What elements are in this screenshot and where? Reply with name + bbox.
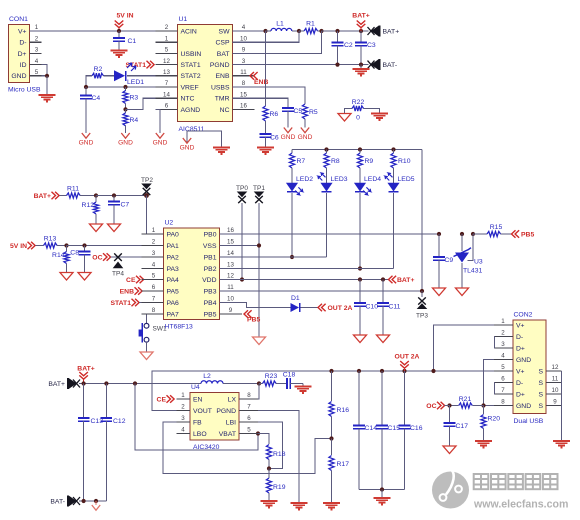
pin 14 U1: [156, 97, 178, 99]
svg-text:4: 4: [152, 262, 156, 269]
svg-text:10: 10: [240, 35, 247, 42]
junction C9 top: [437, 232, 441, 236]
svg-text:L2: L2: [203, 373, 211, 380]
capacitor C13: [83, 384, 85, 419]
capacitor C18 series: [286, 378, 288, 389]
svg-text:VOUT: VOUT: [193, 408, 212, 415]
svg-text:13: 13: [227, 262, 234, 269]
svg-text:8: 8: [242, 80, 246, 87]
ground C10 open: [354, 335, 367, 343]
svg-text:R4: R4: [130, 117, 139, 124]
wire U3 ref: [468, 234, 474, 261]
svg-text:2: 2: [152, 239, 156, 246]
capacitor C4: [85, 87, 87, 96]
svg-text:LED1: LED1: [127, 79, 144, 86]
svg-text:C17: C17: [456, 423, 469, 430]
wire LX to L2: [239, 384, 259, 400]
svg-text:R15: R15: [490, 224, 503, 231]
resistor R13: [36, 245, 44, 247]
junction R3 R4 NTC: [123, 107, 127, 111]
svg-text:4: 4: [181, 427, 185, 434]
svg-text:AIC3420: AIC3420: [193, 444, 220, 451]
wire VSS row: [220, 245, 260, 247]
wire output caps bottom rail: [359, 489, 405, 491]
wire rail right down to PB3: [421, 150, 423, 292]
svg-text:C10: C10: [366, 304, 379, 311]
wire FB route: [163, 422, 332, 474]
wire R2 left down to VREF net: [86, 76, 92, 87]
svg-text:U1: U1: [179, 16, 188, 23]
svg-text:CE: CE: [157, 397, 167, 404]
svg-text:ENB: ENB: [254, 79, 268, 86]
svg-text:GND: GND: [281, 134, 296, 141]
svg-text:8: 8: [247, 392, 251, 399]
wire CON1 ID to GND tie: [42, 65, 48, 76]
pin 9 CON2 shield: [546, 370, 562, 372]
ground battery minus: [360, 65, 362, 69]
svg-text:SW: SW: [219, 28, 231, 35]
wire PGND to BAT- rail: [233, 64, 369, 66]
svg-text:BAT+: BAT+: [48, 381, 65, 388]
svg-text:CSP: CSP: [216, 40, 230, 47]
svg-text:5: 5: [152, 273, 156, 280]
svg-text:NTC: NTC: [181, 96, 195, 103]
resistor R7: [291, 150, 293, 154]
svg-text:1: 1: [35, 24, 39, 31]
svg-text:C18: C18: [283, 372, 296, 379]
svg-text:S: S: [538, 391, 543, 398]
pin 15 U2 right: [220, 245, 243, 247]
pin 16 U1 right: [233, 108, 255, 110]
resistor R14: [66, 246, 68, 252]
junction R20 top: [481, 403, 485, 407]
svg-text:TP1: TP1: [253, 185, 265, 192]
wire CON2 D- D+ tie upper: [493, 337, 496, 349]
svg-text:V+: V+: [18, 28, 27, 35]
junction C12 top: [104, 381, 108, 385]
pin 8 U1 right: [233, 86, 255, 88]
capacitor C5: [282, 107, 294, 109]
resistor R23: [259, 383, 263, 385]
svg-text:2: 2: [501, 330, 505, 337]
svg-text:12: 12: [227, 273, 234, 280]
svg-text:C4: C4: [92, 95, 101, 102]
LED LED2: [287, 183, 298, 191]
svg-text:C9: C9: [445, 257, 454, 264]
svg-text:GND: GND: [516, 357, 531, 364]
svg-text:PB4: PB4: [204, 300, 217, 307]
ground C8 open: [78, 273, 91, 281]
pin 2 U1: [156, 30, 178, 32]
svg-text:U2: U2: [165, 220, 174, 227]
wire VDD BAT+ net: [220, 279, 389, 281]
junction VREF C4: [84, 85, 88, 89]
ground C4: [82, 133, 90, 138]
capacitor C11: [382, 280, 384, 304]
net label BAT+ right: [389, 276, 397, 284]
ground C17 open: [443, 446, 456, 454]
svg-text:R1: R1: [306, 21, 315, 28]
svg-text:R2: R2: [94, 66, 103, 73]
resistor R21: [450, 405, 459, 407]
ground PGND striped: [291, 502, 308, 504]
junction rail R10: [391, 147, 395, 151]
ground C18 striped: [302, 384, 304, 387]
svg-text:PB5: PB5: [247, 317, 260, 324]
svg-text:LED5: LED5: [398, 176, 415, 183]
capacitor C16: [404, 371, 406, 426]
pin 12 CON2 shield: [546, 405, 562, 407]
svg-text:R3: R3: [130, 95, 139, 102]
wire CON2 V+ pin1 drop: [434, 325, 495, 371]
wire CON2 pin8 row: [484, 405, 495, 407]
svg-text:3: 3: [501, 341, 505, 348]
ground R5: [301, 128, 309, 133]
pin 8 CON2: [494, 405, 513, 407]
svg-text:Micro USB: Micro USB: [8, 87, 41, 94]
capacitor C3: [360, 31, 362, 43]
svg-text:ACIN: ACIN: [181, 28, 197, 35]
svg-text:GND: GND: [298, 134, 313, 141]
svg-text:GND: GND: [11, 73, 26, 80]
svg-text:Dual USB: Dual USB: [514, 418, 544, 425]
LED LED3: [321, 183, 332, 191]
resistor R10: [393, 150, 395, 154]
ground R12 open: [90, 224, 103, 232]
pin 12 U2 right: [220, 279, 243, 281]
svg-text:D-: D-: [19, 40, 26, 47]
junction VBAT pin: [256, 431, 260, 435]
svg-text:PA3: PA3: [167, 266, 180, 273]
ground C5: [284, 128, 292, 133]
wire PB1 to LEDs: [220, 256, 327, 258]
svg-text:LED4: LED4: [364, 176, 381, 183]
svg-text:6: 6: [165, 103, 169, 110]
pin 1 CON1: [30, 30, 42, 32]
junction BAT- C13: [82, 499, 86, 503]
pin 1 U2: [142, 233, 164, 235]
svg-text:VSS: VSS: [203, 243, 217, 250]
pin 5 U2: [142, 279, 164, 281]
ground C9 open: [433, 288, 446, 296]
capacitor C8: [84, 246, 86, 252]
svg-text:10: 10: [227, 296, 234, 303]
ground tie arrow GND: [183, 138, 191, 143]
wire LED3 cathode: [326, 193, 328, 257]
pin 10 CON2 shield: [546, 382, 562, 384]
svg-text:1: 1: [165, 35, 169, 42]
capacitor C9: [438, 234, 440, 257]
svg-text:HT68F13: HT68F13: [165, 324, 194, 331]
pin 4 U4: [177, 433, 191, 435]
svg-text:R14: R14: [52, 252, 65, 259]
pin 11 CON2 shield: [546, 393, 562, 395]
wire LED5 cathode: [393, 193, 395, 269]
pin 6 CON2: [494, 382, 513, 384]
svg-text:S: S: [538, 403, 543, 410]
svg-text:4: 4: [35, 58, 39, 65]
inductor L1: [266, 30, 272, 32]
ground tie striped: [213, 147, 230, 149]
ground C7 open: [108, 224, 121, 232]
LED LED5: [388, 183, 399, 191]
pin 2 CON1: [30, 41, 42, 43]
svg-text:D+: D+: [516, 345, 525, 352]
svg-text:OC: OC: [426, 403, 436, 410]
svg-text:5: 5: [501, 364, 505, 371]
svg-text:C8: C8: [70, 250, 79, 257]
junction C2 bottom: [335, 63, 339, 67]
svg-text:6: 6: [501, 376, 505, 383]
IC U4 AIC3420: [190, 393, 239, 441]
svg-text:PB3: PB3: [204, 288, 217, 295]
svg-text:13: 13: [163, 69, 170, 76]
junction C7 top: [112, 193, 116, 197]
svg-text:BAT: BAT: [217, 51, 230, 58]
svg-text:2: 2: [165, 24, 169, 31]
wire TP0 down to VDD: [241, 203, 243, 280]
wire R11 to TP2: [96, 195, 147, 197]
svg-text:R12: R12: [82, 202, 95, 209]
svg-text:0: 0: [356, 115, 360, 122]
junction V+ pin1 drop: [431, 369, 435, 373]
pin 8 U2: [142, 313, 164, 315]
ground R22 right striped: [371, 113, 388, 115]
svg-text:TL431: TL431: [463, 268, 482, 275]
connector CON2 Dual USB: [513, 320, 546, 414]
svg-text:R7: R7: [297, 158, 306, 165]
svg-text:LBO: LBO: [193, 431, 207, 438]
junction BAT- gnd marker: [94, 499, 98, 503]
junction PB3 rail TP3: [420, 289, 424, 293]
svg-text:D-: D-: [516, 334, 523, 341]
svg-text:R11: R11: [67, 186, 79, 193]
svg-text:5: 5: [165, 47, 169, 54]
junction C11 top: [381, 277, 385, 281]
ground SW1 open: [140, 352, 153, 360]
junction C13 top: [82, 381, 86, 385]
pin 11 U1 right: [233, 75, 255, 77]
svg-text:BAT+: BAT+: [397, 277, 414, 284]
svg-text:BAT+: BAT+: [77, 366, 94, 373]
resistor R16: [331, 371, 333, 401]
svg-text:PA4: PA4: [167, 277, 180, 284]
junction R12 top: [94, 193, 98, 197]
wire VBAT routing: [135, 384, 258, 451]
junction C8 top: [82, 243, 86, 247]
svg-text:BAT+: BAT+: [34, 193, 51, 200]
capacitor C10: [359, 280, 361, 304]
svg-text:12: 12: [552, 364, 559, 371]
wire VOUT rail up: [152, 371, 332, 411]
svg-text:GND: GND: [79, 140, 94, 147]
svg-text:11: 11: [240, 69, 247, 76]
svg-text:9: 9: [553, 399, 557, 406]
svg-text:BAT-: BAT-: [50, 498, 65, 505]
svg-text:LED2: LED2: [296, 176, 313, 183]
ground R4: [121, 133, 129, 138]
svg-text:16: 16: [227, 227, 234, 234]
pin 3 U2: [142, 256, 164, 258]
svg-text:VBAT: VBAT: [219, 431, 236, 438]
svg-text:LBI: LBI: [226, 419, 236, 426]
wire U3 cathode: [461, 234, 463, 251]
wire PB4 jog to D1: [220, 303, 291, 308]
svg-text:PA1: PA1: [167, 243, 180, 250]
wire STAT1 to U2.PA6: [139, 302, 163, 304]
wire TP3 drop: [421, 291, 423, 297]
wire USBS to R5: [233, 87, 306, 104]
svg-text:ID: ID: [20, 62, 27, 69]
pin 6 U1: [156, 108, 178, 110]
wire CON2 D- D+ tie lower: [493, 383, 496, 395]
svg-text:6: 6: [247, 415, 251, 422]
svg-text:PGND: PGND: [210, 62, 230, 69]
wire BAT- row: [79, 500, 106, 502]
junction U3 ref: [471, 232, 475, 236]
wire VREF net: [86, 86, 156, 88]
svg-text:7: 7: [152, 296, 156, 303]
pin 5 CON2: [494, 370, 513, 372]
pin 2 U2: [142, 245, 164, 247]
junction C3 bottom: [359, 63, 363, 67]
wire PB3 net: [220, 290, 423, 292]
svg-text:TP3: TP3: [416, 313, 428, 320]
pin 2 CON2: [494, 336, 513, 338]
resistor R3: [125, 87, 127, 91]
junction TP1 VSS: [257, 243, 261, 247]
svg-text:6: 6: [152, 284, 156, 291]
svg-text:TMR: TMR: [215, 96, 230, 103]
resistor R18: [266, 445, 271, 460]
capacitor C1: [118, 31, 120, 38]
wire NTC to divider: [126, 98, 156, 109]
svg-text:5V IN: 5V IN: [10, 243, 27, 250]
svg-text:STAT1: STAT1: [110, 300, 131, 307]
svg-text:OC: OC: [92, 255, 102, 262]
LED LED4: [355, 183, 366, 191]
wire output rail: [152, 370, 494, 372]
wire TMR to C5: [233, 98, 289, 108]
diode D1: [291, 303, 300, 312]
svg-text:PA5: PA5: [167, 288, 180, 295]
junction TP0 VDD: [240, 277, 244, 281]
capacitor C15: [381, 371, 383, 426]
wire U3 anode: [461, 263, 463, 288]
resistor R19: [268, 469, 270, 479]
svg-text:4: 4: [501, 353, 505, 360]
svg-text:1: 1: [501, 318, 505, 325]
pin 1 CON2: [494, 324, 513, 326]
svg-text:L1: L1: [276, 21, 284, 28]
ground CON2 shield striped: [553, 440, 570, 442]
svg-text:V+: V+: [516, 368, 525, 375]
junction CON1 GND: [45, 74, 49, 78]
resistor R11: [60, 195, 67, 197]
ground R17 striped: [323, 502, 340, 504]
junction R18 R19 LBI: [267, 466, 271, 470]
pin 1 U4: [177, 398, 191, 400]
wire CE to U2.PA4: [144, 279, 164, 281]
pin 3 CON1: [30, 52, 42, 54]
svg-text:BAT-: BAT-: [383, 62, 398, 69]
svg-text:14: 14: [227, 250, 234, 257]
svg-text:15: 15: [240, 91, 247, 98]
svg-text:GND: GND: [180, 145, 195, 152]
pin 13 U1: [156, 75, 178, 77]
LED LED1: [114, 70, 125, 81]
junction C3 top: [359, 29, 363, 33]
svg-text:D1: D1: [291, 295, 300, 302]
inductor L2: [201, 381, 223, 384]
svg-text:8: 8: [152, 307, 156, 314]
svg-text:2: 2: [181, 404, 185, 411]
svg-text:BAT+: BAT+: [383, 28, 400, 35]
junction SW node: [263, 29, 267, 33]
svg-text:PB5: PB5: [521, 232, 534, 239]
pin 7 CON2: [494, 393, 513, 395]
pin 6 U2: [142, 290, 164, 292]
svg-text:PA6: PA6: [167, 300, 180, 307]
pin 8 U4 right: [239, 398, 258, 400]
junction VBAT drop: [133, 381, 137, 385]
svg-text:PB2: PB2: [204, 266, 217, 273]
junction L2 LX R23: [257, 381, 261, 385]
wire TP2 down to PA0: [147, 196, 164, 235]
wire R13 to U2.PA1: [67, 245, 164, 247]
svg-text:3: 3: [181, 415, 185, 422]
pin 11 U2 right: [220, 290, 243, 292]
testpoint TP3: [417, 303, 428, 309]
svg-text:TP2: TP2: [141, 177, 153, 184]
capacitor C2: [337, 31, 339, 43]
svg-text:C2: C2: [344, 42, 353, 49]
pin 4 U2: [142, 268, 164, 270]
ground R22 left open: [338, 114, 351, 122]
wire OC to U2.PA2: [111, 256, 164, 258]
svg-text:1: 1: [181, 392, 185, 399]
wire LED4 cathode: [359, 193, 361, 269]
wire SW1 to ground: [146, 342, 148, 352]
resistor R20: [483, 406, 485, 415]
pin 4 U1 right: [233, 30, 255, 32]
svg-text:10: 10: [552, 387, 559, 394]
junction VREF R3: [123, 85, 127, 89]
ground caps striped: [374, 497, 391, 499]
junction C15 top: [380, 369, 384, 373]
svg-text:TP0: TP0: [236, 185, 248, 192]
ground BAT- arrow: [95, 501, 97, 505]
off-page connector BAT+ bottom: [73, 380, 80, 388]
resistor R2: [104, 75, 115, 77]
ground R19 striped: [261, 500, 278, 502]
svg-text:BAT+: BAT+: [352, 13, 369, 20]
svg-text:S: S: [538, 368, 543, 375]
svg-text:www.elecfans.com: www.elecfans.com: [473, 499, 568, 511]
junction LED2 PB1: [290, 255, 294, 259]
svg-text:16: 16: [240, 103, 247, 110]
resistor R6: [263, 106, 268, 121]
pin 3 CON2: [494, 347, 513, 349]
junction rail R8: [324, 147, 328, 151]
svg-text:USBIN: USBIN: [181, 51, 202, 58]
ground R20 striped: [475, 440, 492, 442]
svg-text:11: 11: [227, 284, 234, 291]
svg-text:LED3: LED3: [331, 176, 348, 183]
wire SW snubber down: [265, 31, 267, 106]
wire CSP tap: [233, 31, 300, 42]
svg-text:D+: D+: [18, 51, 27, 58]
